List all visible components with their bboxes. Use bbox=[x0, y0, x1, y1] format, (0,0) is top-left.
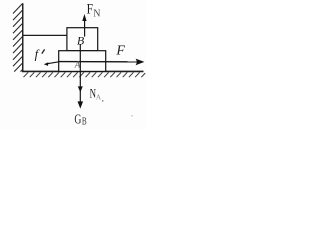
wire string from wall to block B bbox=[23, 34, 67, 36]
svg-text:B: B bbox=[82, 116, 87, 127]
force N_A arrowhead bbox=[78, 86, 83, 92]
speck noise bbox=[102, 100, 103, 101]
wire F line of action through block A bbox=[59, 61, 138, 63]
block B bbox=[67, 28, 98, 51]
N_A / G_B shared shaft bbox=[79, 44, 81, 106]
svg-text:F: F bbox=[87, 2, 93, 18]
wall bbox=[22, 3, 24, 71]
friction f' arrowhead bbox=[44, 62, 49, 66]
svg-text:N: N bbox=[93, 8, 100, 19]
block A bbox=[59, 51, 106, 72]
force F_N arrow shaft bbox=[84, 20, 86, 37]
friction f' wire bbox=[47, 62, 59, 64]
ground bbox=[22, 70, 144, 72]
force G_B arrowhead bbox=[78, 101, 84, 108]
svg-text:A: A bbox=[96, 93, 102, 102]
svg-text:F: F bbox=[115, 44, 125, 59]
force F arrowhead bbox=[136, 59, 145, 66]
ground hatching bbox=[24, 72, 146, 77]
svg-text:G: G bbox=[74, 113, 81, 128]
force F_N arrowhead bbox=[82, 14, 86, 21]
wall hatching bbox=[13, 4, 22, 72]
